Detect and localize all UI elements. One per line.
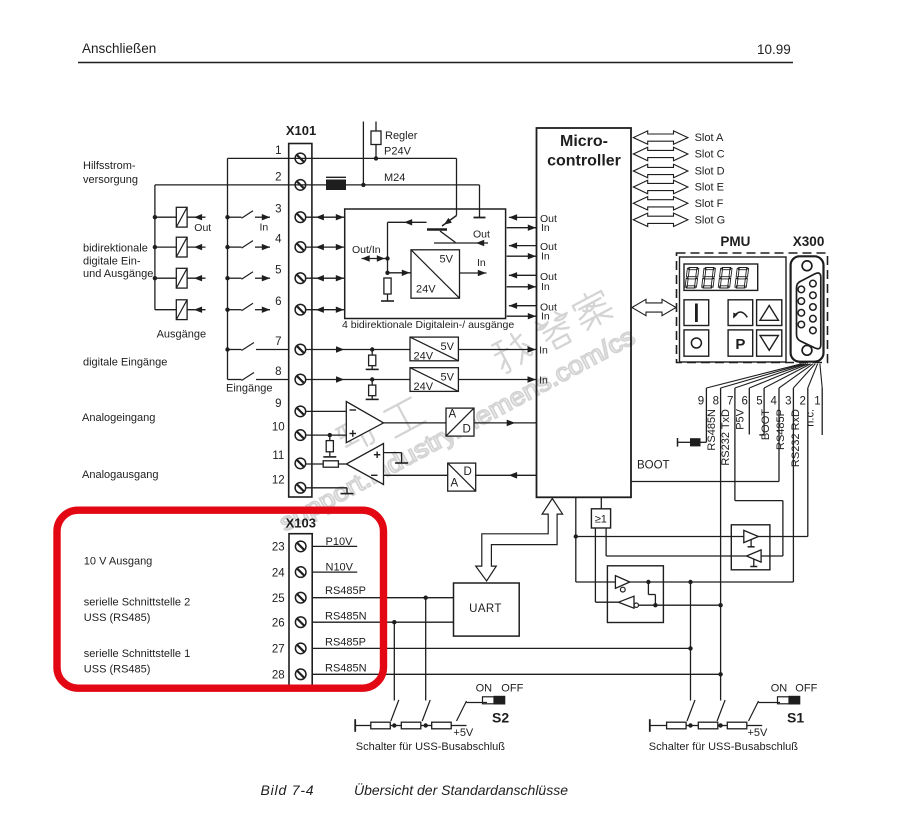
svg-text:RS485P: RS485P (325, 637, 366, 649)
svg-text:X300: X300 (793, 234, 825, 249)
svg-text:12: 12 (272, 474, 285, 486)
svg-text:1: 1 (814, 396, 820, 408)
svg-text:27: 27 (272, 644, 285, 656)
svg-text:24: 24 (272, 567, 285, 579)
svg-text:In: In (539, 345, 548, 357)
svg-text:P24V: P24V (384, 146, 412, 158)
svg-text:RS485N: RS485N (325, 662, 367, 674)
svg-text:OFF: OFF (501, 683, 523, 695)
svg-text:9: 9 (698, 396, 704, 408)
svg-text:versorgung: versorgung (83, 174, 138, 186)
svg-text:D: D (463, 424, 471, 436)
svg-text:5: 5 (275, 265, 281, 277)
svg-text:D: D (464, 466, 472, 478)
svg-text:Anschließen: Anschließen (82, 41, 156, 56)
svg-text:Analogeingang: Analogeingang (82, 412, 155, 424)
svg-text:Out: Out (194, 222, 211, 234)
svg-text:In: In (539, 374, 548, 386)
svg-text:Slot A: Slot A (695, 132, 724, 144)
svg-text:Slot C: Slot C (695, 149, 725, 161)
svg-text:A: A (451, 478, 459, 490)
svg-text:5V: 5V (440, 254, 454, 266)
svg-text:24V: 24V (416, 284, 436, 296)
svg-text:7: 7 (275, 336, 281, 348)
svg-text:2: 2 (275, 171, 281, 183)
svg-text:controller: controller (547, 153, 621, 170)
svg-text:RS485P: RS485P (325, 585, 366, 597)
svg-text:10: 10 (272, 422, 285, 434)
svg-text:10.99: 10.99 (757, 42, 791, 57)
svg-text:Slot D: Slot D (695, 166, 725, 178)
svg-text:8: 8 (275, 366, 281, 378)
svg-text:P: P (735, 336, 745, 353)
svg-text:P10V: P10V (326, 536, 354, 548)
svg-text:5V: 5V (441, 341, 455, 353)
svg-text:In: In (260, 222, 269, 234)
svg-text:Eingänge: Eingänge (226, 383, 273, 395)
svg-text:+5V: +5V (748, 727, 769, 739)
svg-text:7: 7 (727, 396, 733, 408)
svg-text:digitale Eingänge: digitale Eingänge (83, 357, 167, 369)
svg-text:1: 1 (275, 145, 281, 157)
svg-text:3: 3 (785, 396, 791, 408)
svg-text:Übersicht der Standardanschlüs: Übersicht der Standardanschlüsse (354, 781, 568, 798)
svg-text:4: 4 (770, 396, 777, 408)
svg-text:25: 25 (272, 593, 285, 605)
svg-text:23: 23 (272, 542, 285, 554)
svg-text:28: 28 (272, 670, 285, 682)
svg-text:RS485N: RS485N (325, 611, 367, 623)
svg-text:X101: X101 (286, 123, 316, 138)
svg-text:In: In (541, 250, 550, 262)
svg-text:serielle Schnittstelle 1: serielle Schnittstelle 1 (84, 648, 190, 660)
svg-text:OFF: OFF (795, 683, 817, 695)
svg-text:PMU: PMU (720, 234, 750, 249)
svg-text:S1: S1 (787, 710, 804, 726)
svg-text:Slot E: Slot E (695, 182, 724, 194)
svg-text:In: In (541, 222, 550, 234)
svg-text:Ausgänge: Ausgänge (157, 329, 207, 341)
svg-text:11: 11 (272, 450, 284, 462)
svg-text:bidirektionale: bidirektionale (83, 243, 148, 255)
svg-text:In: In (477, 257, 486, 269)
svg-text:4 bidirektionale Digitalein-/: 4 bidirektionale Digitalein-/ ausgänge (342, 319, 514, 331)
svg-text:6: 6 (741, 396, 747, 408)
svg-text:RS485P: RS485P (775, 409, 787, 450)
svg-text:S2: S2 (492, 710, 509, 726)
svg-text:X103: X103 (286, 516, 316, 531)
svg-text:serielle Schnittstelle 2: serielle Schnittstelle 2 (84, 597, 190, 609)
svg-text:UART: UART (469, 603, 502, 615)
svg-text:ON: ON (476, 683, 493, 695)
svg-text:Regler: Regler (385, 130, 418, 142)
svg-text:4: 4 (275, 234, 282, 246)
svg-text:Micro-: Micro- (560, 133, 608, 150)
svg-text:USS (RS485): USS (RS485) (84, 612, 151, 624)
svg-text:Schalter für USS-Busabschluß: Schalter für USS-Busabschluß (356, 741, 505, 753)
svg-text:≥1: ≥1 (595, 513, 607, 525)
svg-text:In: In (541, 281, 550, 293)
svg-text:Schalter für USS-Busabschluß: Schalter für USS-Busabschluß (649, 741, 798, 753)
svg-text:A: A (449, 409, 457, 421)
svg-text:+5V: +5V (453, 727, 474, 739)
svg-text:Out/In: Out/In (352, 244, 381, 256)
svg-text:Out: Out (473, 229, 490, 241)
svg-text:RS232 RxD: RS232 RxD (790, 409, 802, 467)
svg-text:Slot G: Slot G (695, 214, 726, 226)
svg-text:In: In (541, 310, 550, 322)
svg-text:USS (RS485): USS (RS485) (84, 664, 151, 676)
svg-text:P5V: P5V (735, 408, 747, 429)
svg-text:10 V Ausgang: 10 V Ausgang (84, 556, 153, 568)
svg-text:5V: 5V (441, 372, 455, 384)
svg-text:M24: M24 (384, 172, 405, 184)
svg-text:Slot F: Slot F (695, 198, 724, 210)
svg-text:24V: 24V (414, 350, 434, 362)
svg-text:8: 8 (713, 396, 719, 408)
svg-text:N10V: N10V (326, 562, 354, 574)
svg-text:Analogausgang: Analogausgang (82, 469, 158, 481)
svg-text:24V: 24V (414, 381, 434, 393)
svg-text:Bild 7-4: Bild 7-4 (261, 782, 315, 798)
svg-text:RS232 TxD: RS232 TxD (720, 409, 732, 466)
svg-text:26: 26 (272, 618, 285, 630)
svg-text:2: 2 (799, 396, 805, 408)
svg-text:6: 6 (275, 296, 281, 308)
svg-text:3: 3 (275, 204, 281, 216)
svg-text:digitale Ein-: digitale Ein- (83, 256, 141, 268)
svg-text:Hilfsstrom-: Hilfsstrom- (83, 160, 136, 172)
svg-text:ON: ON (771, 683, 788, 695)
svg-text:9: 9 (275, 398, 281, 410)
svg-text:BOOT: BOOT (637, 460, 670, 472)
svg-text:RS485N: RS485N (706, 409, 718, 451)
svg-text:5: 5 (756, 396, 762, 408)
svg-text:n.c.: n.c. (805, 409, 817, 427)
svg-text:und Ausgänge: und Ausgänge (83, 268, 153, 280)
